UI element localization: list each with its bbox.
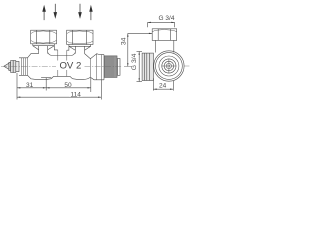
union nut (front view) <box>152 29 177 41</box>
centerline left view <box>1 65 122 67</box>
dimension 24 <box>153 78 173 90</box>
flow arrow down (right pair) <box>78 4 82 19</box>
svg-text:G 3/4: G 3/4 <box>159 15 175 22</box>
svg-text:OV 2: OV 2 <box>59 61 81 72</box>
svg-text:50: 50 <box>64 82 72 89</box>
dimension 50 <box>46 78 91 93</box>
svg-text:114: 114 <box>71 91 82 98</box>
pipe below nut (front view) <box>155 40 174 52</box>
presetting spindle (left end) <box>4 61 19 73</box>
flow arrow down (left pair) <box>54 4 58 19</box>
svg-text:31: 31 <box>26 82 34 89</box>
dimension 114 <box>17 80 101 100</box>
dimension G 3/4 (vertical, front view) <box>131 52 142 82</box>
stepped discs (front view, left of circle) <box>142 53 153 80</box>
knurled cap (right end) <box>105 56 121 78</box>
body front face circles <box>154 51 184 81</box>
flow arrow up (right pair) <box>89 5 92 20</box>
spindle cross slot <box>162 59 177 74</box>
circle centerline dashes <box>146 65 189 67</box>
valve body outline (left view) <box>19 46 104 80</box>
svg-text:G 3/4: G 3/4 <box>131 53 138 70</box>
svg-text:24: 24 <box>159 83 167 90</box>
tailpipe neck right <box>69 45 91 54</box>
label OV 2 <box>58 61 84 72</box>
tailpipe neck left <box>33 44 55 54</box>
svg-text:34: 34 <box>121 37 128 45</box>
flow arrow up (left pair) <box>42 5 46 20</box>
body joint lines <box>21 50 101 80</box>
union nut left (side view) <box>31 30 57 44</box>
dimension 31 <box>17 73 51 100</box>
union nut right (side view) <box>67 30 93 44</box>
dimension G 3/4 (top, front view) <box>148 15 175 27</box>
dimension 34 (vertical) <box>121 33 153 67</box>
